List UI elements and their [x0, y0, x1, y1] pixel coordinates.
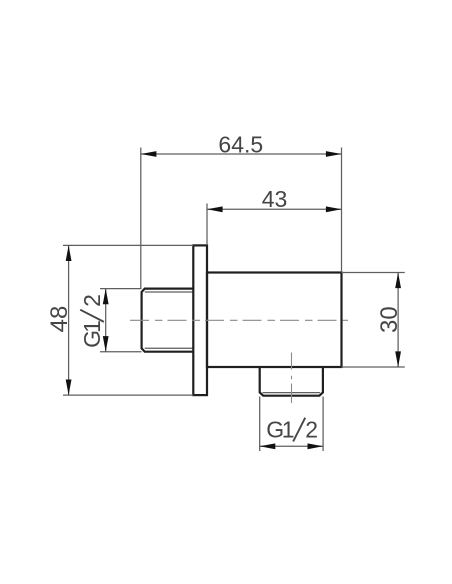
svg-text:2: 2 [305, 417, 318, 443]
arrowhead right [326, 151, 342, 157]
extension line right (outlet right) [322, 397, 324, 452]
svg-text:1: 1 [79, 320, 105, 333]
extension line top (thread top) [100, 288, 142, 290]
dimension 48 [46, 245, 193, 395]
arrowhead top [395, 273, 401, 289]
dimension line 43 [207, 208, 342, 210]
thread minor-diameter line (bottom outlet) [263, 392, 321, 394]
extension line left (outlet left) [259, 397, 261, 452]
dimension line 64.5 [141, 153, 342, 155]
svg-text:43: 43 [262, 186, 288, 212]
dimension line G1/2 left [105, 289, 107, 352]
centerline horizontal (axis) [130, 319, 348, 321]
arrowhead left [141, 151, 157, 157]
extension line top (flange top) [63, 244, 193, 246]
extension line right (body front, shared with 43) [341, 148, 343, 273]
dimension 43 [207, 186, 342, 245]
dimension line 30 [397, 273, 399, 368]
arrowhead top [103, 289, 109, 305]
extension line left (thread end face) [140, 148, 142, 289]
dimension 64.5 [141, 131, 342, 288]
extension line top (body top) [342, 272, 405, 274]
extension line bottom (thread bottom) [100, 351, 142, 353]
svg-text:64.5: 64.5 [218, 131, 263, 157]
centerline vertical (outlet axis) [291, 353, 293, 404]
arrowhead right [308, 443, 324, 449]
arrowhead top [66, 245, 72, 261]
flange plate [193, 245, 207, 395]
label G1/2 (rotated) [79, 294, 105, 348]
dimension line G1/2 bottom [260, 445, 323, 447]
arrowhead bottom [103, 336, 109, 352]
svg-text:1: 1 [282, 417, 295, 443]
bottom outlet male thread G1/2 [260, 367, 323, 396]
svg-text:48: 48 [46, 306, 73, 333]
body block [207, 273, 342, 368]
dimension 30 [342, 273, 405, 368]
arrowhead left [207, 206, 223, 212]
svg-text:2: 2 [79, 294, 105, 307]
arrowhead bottom [395, 351, 401, 367]
svg-text:30: 30 [376, 306, 403, 333]
dimension line 48 [68, 245, 70, 395]
extension line bottom (flange bottom) [63, 394, 193, 396]
arrowhead left [260, 443, 276, 449]
arrowhead bottom [66, 380, 72, 396]
extension line bottom (body bottom) [342, 366, 405, 368]
dimension G1/2 (left thread) [79, 289, 142, 352]
wall-side male thread G1/2 (left stub) [142, 289, 194, 352]
dimension G1/2 (bottom outlet) [260, 397, 323, 452]
extension line left (flange front face) [206, 204, 208, 246]
thread minor-diameter lines (left stub) [145, 292, 194, 348]
arrowhead right [326, 206, 342, 212]
